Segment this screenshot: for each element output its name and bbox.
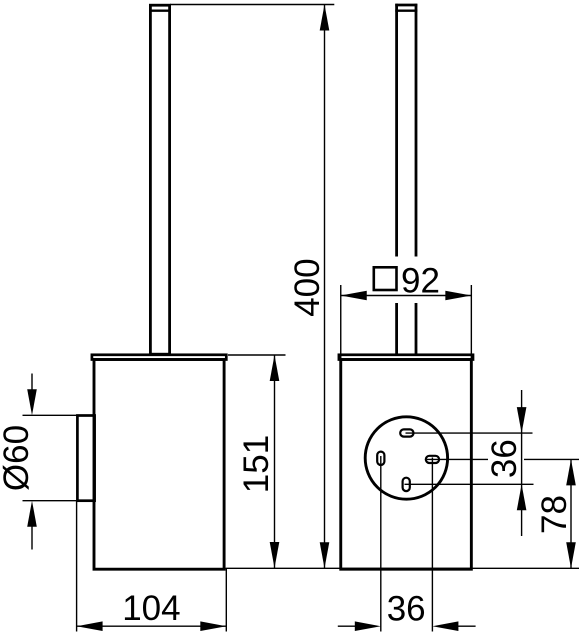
dimension tail b36 right xyxy=(457,625,475,627)
extension line 104 right xyxy=(225,568,227,632)
svg-text:78: 78 xyxy=(535,495,574,534)
wall plate xyxy=(77,416,94,501)
dimension line 78 xyxy=(570,459,572,568)
right view rod left line lower xyxy=(395,303,398,355)
right rod top line xyxy=(395,4,417,7)
extension line rod top (400) xyxy=(170,4,334,6)
extension line bottom shared xyxy=(226,567,579,569)
arrow 400 bottom xyxy=(320,542,330,568)
right view rod right line upper xyxy=(415,4,418,257)
leader line right slot horizontal right part xyxy=(524,458,579,460)
arrow 92 left xyxy=(341,291,367,301)
arrow 151 bottom xyxy=(270,542,280,568)
right view rod left line upper xyxy=(395,4,398,257)
svg-text:92: 92 xyxy=(401,262,440,301)
svg-text:36: 36 xyxy=(485,439,524,478)
svg-text:36: 36 xyxy=(387,590,426,629)
dimension tail d60 top xyxy=(31,374,33,393)
arrow 92 right xyxy=(445,291,471,301)
dimension line 92 xyxy=(341,295,472,297)
extension line 151 top xyxy=(228,354,286,356)
dimension line 400 xyxy=(324,5,326,569)
extension line 92 right xyxy=(470,285,472,358)
left view lid xyxy=(92,355,226,360)
arrow 151 top xyxy=(270,355,280,381)
arrow 400 top xyxy=(320,5,330,31)
svg-text:400: 400 xyxy=(288,258,327,316)
arrow 104 left xyxy=(77,621,103,631)
extension line 92 left xyxy=(340,285,342,358)
right rod cap line xyxy=(395,9,417,11)
square symbol of 92 xyxy=(374,267,397,290)
leader line bottom slot horizontal xyxy=(405,483,534,485)
dimension line 151 xyxy=(274,355,276,568)
left rod cap line xyxy=(149,9,171,11)
left view container body xyxy=(94,360,224,570)
dimension line 104 xyxy=(77,625,227,627)
leader line top slot xyxy=(406,432,533,434)
leader line right slot vertical xyxy=(431,458,433,632)
arrow 78 top xyxy=(566,459,576,485)
extension line d60 top xyxy=(23,414,94,416)
arrow v36 bottom xyxy=(517,484,527,510)
dimension tail d60 bottom xyxy=(31,524,33,550)
dimension line v36 xyxy=(521,390,523,536)
arrow 104 right xyxy=(200,621,226,631)
right view rod right line lower xyxy=(415,303,418,355)
svg-text:151: 151 xyxy=(237,435,276,493)
arrow b36 right xyxy=(432,621,458,631)
arrow d60 bottom xyxy=(27,501,37,527)
left view brush rod xyxy=(150,5,169,354)
leader line left slot vertical xyxy=(380,456,382,632)
slot right xyxy=(426,456,439,463)
arrow b36 left xyxy=(355,621,381,631)
dimension tail b36 left xyxy=(338,625,356,627)
arrow 78 bottom xyxy=(566,542,576,568)
mounting circle xyxy=(365,417,447,499)
arrow d60 top xyxy=(27,389,37,415)
extension line 104 left xyxy=(76,501,78,632)
svg-text:104: 104 xyxy=(122,589,180,628)
right view container body xyxy=(341,360,472,570)
svg-text:Ø60: Ø60 xyxy=(0,425,36,491)
right view lid xyxy=(339,355,473,360)
slot bottom xyxy=(403,478,410,491)
leader line right slot horizontal left part xyxy=(427,458,488,460)
arrow v36 top xyxy=(517,407,527,433)
slot left xyxy=(377,452,384,465)
slot top xyxy=(400,429,413,436)
extension line d60 bottom xyxy=(23,500,94,502)
